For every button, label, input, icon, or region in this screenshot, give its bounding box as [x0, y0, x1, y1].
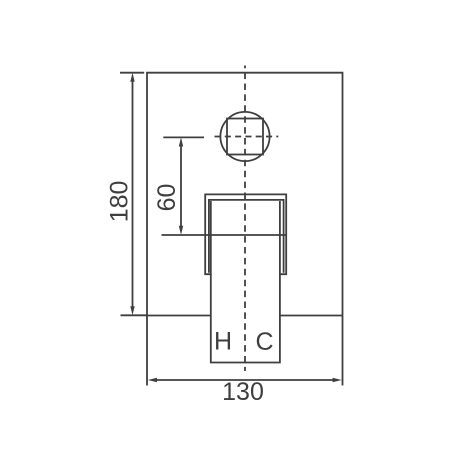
svg-text:C: C: [255, 328, 273, 356]
svg-text:H: H: [214, 328, 232, 356]
svg-text:130: 130: [222, 378, 264, 406]
svg-text:180: 180: [106, 181, 134, 223]
svg-text:60: 60: [153, 184, 181, 212]
